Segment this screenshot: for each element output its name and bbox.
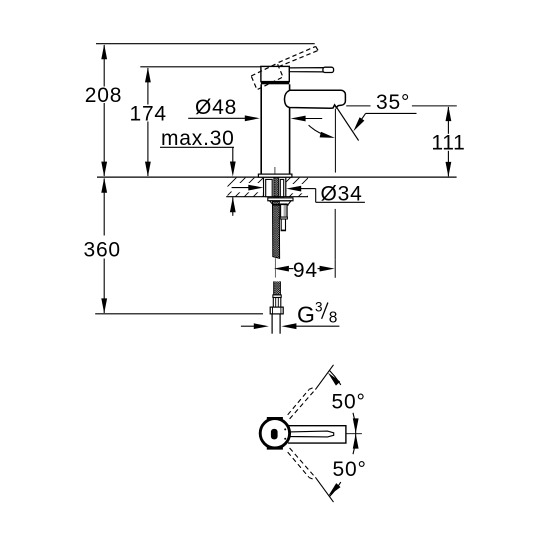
dimension 208	[85, 44, 122, 176]
mounting hole right edge	[285, 178, 287, 197]
extension line 174	[140, 66, 261, 68]
mounting stud	[281, 204, 288, 217]
lever solid	[289, 67, 333, 72]
swing arc at spout	[309, 125, 336, 141]
head dark band	[261, 81, 289, 84]
dot upper	[284, 428, 286, 430]
head cap	[261, 66, 289, 81]
svg-text:Ø34: Ø34	[321, 183, 363, 206]
lever dashed lower	[288, 448, 315, 479]
bottom reference line	[95, 313, 263, 315]
countertop top surface line	[97, 176, 457, 178]
countertop hatching	[228, 178, 309, 197]
G3/8 arrows	[241, 323, 340, 329]
lever raised dashed	[279, 46, 319, 66]
lever escutcheon top view	[288, 426, 346, 443]
flat bottom	[267, 447, 283, 450]
arc lower 50	[326, 434, 359, 499]
35 degree stream line	[337, 107, 359, 140]
svg-text:50°: 50°	[333, 458, 367, 481]
leg line lower 50	[315, 477, 333, 502]
braided hose upper	[273, 177, 280, 258]
faucet body left edge	[260, 84, 262, 174]
svg-text:360: 360	[83, 239, 120, 262]
arc upper 50	[326, 371, 359, 434]
svg-text:208: 208	[85, 84, 122, 107]
body circle top view	[260, 419, 289, 448]
flat top	[267, 417, 283, 420]
svg-text:Ø48: Ø48	[195, 96, 237, 119]
mounting hole left edge	[263, 178, 265, 197]
svg-text:35°: 35°	[376, 91, 410, 114]
mounting washer	[268, 198, 293, 201]
svg-text:3: 3	[315, 299, 323, 314]
extension line below spout tip	[334, 109, 336, 260]
dimension 111	[431, 106, 465, 177]
faucet centerline	[274, 167, 276, 177]
label G 3/8	[297, 299, 337, 327]
hex nut G3/8	[270, 307, 283, 314]
dimension 360	[83, 178, 120, 314]
svg-text:8: 8	[329, 310, 338, 327]
svg-text:50°: 50°	[332, 390, 366, 413]
shank sleeve left	[266, 179, 273, 196]
countertop bottom line	[226, 196, 308, 198]
shank sleeve right	[280, 179, 283, 196]
label 35deg	[346, 91, 457, 133]
dimension 94	[274, 259, 335, 282]
base flange	[258, 174, 292, 177]
svg-text:94: 94	[293, 259, 318, 282]
supply tube	[272, 314, 280, 334]
stud rod	[281, 219, 285, 231]
dot lower	[284, 438, 286, 440]
mounting nut	[270, 201, 291, 205]
svg-text:G: G	[297, 301, 315, 327]
centerline horizontal	[291, 433, 362, 435]
extension line top (208)	[96, 43, 315, 45]
lever rod top view	[289, 431, 334, 437]
head tilted dashed	[251, 63, 283, 89]
lever dashed upper	[288, 388, 315, 419]
faucet body right edge	[289, 84, 291, 174]
svg-text:max.30: max.30	[161, 127, 235, 150]
svg-text:174: 174	[129, 102, 166, 125]
dimension 174	[129, 67, 166, 176]
hose centerline in break	[274, 258, 276, 277]
label diameter 34	[232, 183, 263, 192]
spout	[285, 90, 346, 108]
hose collar	[273, 295, 281, 298]
slot	[271, 429, 278, 440]
stud collar	[280, 217, 287, 219]
hose fitting	[273, 298, 281, 308]
leg line upper 50	[315, 365, 333, 390]
label diameter 48	[188, 96, 322, 121]
braided hose lower	[274, 281, 281, 295]
label max.30	[160, 127, 236, 216]
